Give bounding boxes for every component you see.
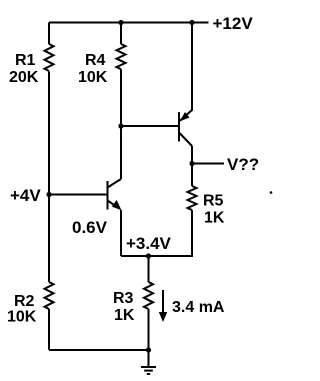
wire: left column +4V node to R2 xyxy=(48,195,50,283)
wire: left column R2 to bottom rail xyxy=(48,309,50,350)
wire: +12V top rail xyxy=(49,22,209,24)
junction: R4 top on +12V rail xyxy=(118,20,123,25)
wire: Q2 base wire xyxy=(121,125,178,127)
wire: middle column R4 to Q1 collector xyxy=(120,69,122,179)
wire: R3 top lead xyxy=(148,256,150,282)
resistor R2 xyxy=(45,282,54,309)
Q1 emitter diagonal xyxy=(108,201,120,209)
svg-text:1K: 1K xyxy=(204,210,225,227)
current arrow 3.4 mA xyxy=(159,290,167,322)
junction: R3 tap on +3.4V rail xyxy=(146,253,151,258)
Q1 collector diagonal xyxy=(108,179,122,188)
svg-text:R5: R5 xyxy=(203,193,224,210)
svg-text:+12V: +12V xyxy=(213,14,254,33)
speck artifact xyxy=(270,191,273,194)
wire: stub to V?? label xyxy=(192,163,224,165)
svg-text:3.4 mA: 3.4 mA xyxy=(172,299,225,316)
Q2 emitter arrowhead (points into base bar) xyxy=(180,112,190,122)
resistor R3 xyxy=(144,282,153,309)
svg-text:R2: R2 xyxy=(14,293,35,310)
Q2 collector diagonal xyxy=(179,133,192,147)
svg-text:R4: R4 xyxy=(85,52,106,69)
resistor R5 xyxy=(188,186,197,210)
Q2 base bar xyxy=(178,112,180,142)
ground xyxy=(141,350,156,374)
svg-text:V??: V?? xyxy=(227,155,259,174)
Q1 base bar xyxy=(107,181,109,210)
svg-text:1K: 1K xyxy=(114,307,135,324)
svg-text:+4V: +4V xyxy=(10,186,41,205)
wire: bottom ground rail xyxy=(49,349,149,351)
wire: Q2 collector down to V?? node xyxy=(191,146,193,186)
svg-text:R1: R1 xyxy=(15,52,36,69)
wire: R3 bottom to ground rail xyxy=(148,309,150,350)
wire: left column R1 to +4V node xyxy=(48,72,50,195)
node V?? junction xyxy=(189,161,194,166)
junction: Q2 emitter column on +12V rail xyxy=(189,20,194,25)
svg-text:0.6V: 0.6V xyxy=(72,218,108,237)
junction: Q2 base tap on middle column xyxy=(118,123,123,128)
wire: R5 bottom to +3.4V rail xyxy=(121,210,192,256)
svg-text:R3: R3 xyxy=(113,290,134,307)
wire: R1 top lead from rail xyxy=(48,23,50,45)
transistor Q2 (PNP) xyxy=(179,23,192,147)
wire: Q1 emitter down to +3.4V rail xyxy=(120,210,122,256)
junction: ground tap on bottom rail xyxy=(146,347,151,352)
resistor R1 xyxy=(45,44,54,71)
resistor R4 xyxy=(117,44,126,69)
transistor Q1 (NPN) xyxy=(108,179,122,210)
wire: base wire +4V node to Q1 base xyxy=(49,194,107,196)
node +4V junction xyxy=(46,192,51,197)
svg-text:20K: 20K xyxy=(9,69,39,86)
Q2 emitter lead from +12V rail xyxy=(180,23,192,121)
svg-text:+3.4V: +3.4V xyxy=(126,234,172,253)
wire: R4 top lead from rail xyxy=(120,23,122,45)
svg-text:10K: 10K xyxy=(78,69,108,86)
Q1 emitter arrowhead (points out, NPN) xyxy=(112,200,122,210)
svg-text:10K: 10K xyxy=(7,309,37,326)
